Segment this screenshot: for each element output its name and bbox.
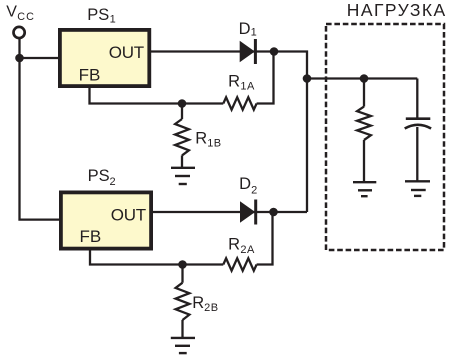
- ground (R2B): [171, 338, 195, 353]
- svg-text:PS: PS: [88, 167, 110, 185]
- Vcc label: [6, 3, 35, 23]
- Vcc terminal: [14, 27, 25, 38]
- ground (load capacitor): [405, 181, 430, 196]
- power supply PS2: [61, 192, 151, 248]
- wire PS2 OUT to D2: [153, 211, 274, 213]
- wire PS2 FB down and right: [90, 249, 223, 265]
- load capacitor: [405, 79, 431, 182]
- PS2 label: [88, 167, 116, 188]
- resistor R1B: [175, 104, 189, 168]
- load box dashed outline: [326, 24, 444, 250]
- node junction D2 cathode: [269, 208, 278, 217]
- svg-text:R: R: [192, 294, 204, 312]
- node junction D1 cathode: [270, 47, 279, 56]
- ground (load resistor): [353, 182, 376, 196]
- svg-text:1: 1: [251, 27, 257, 39]
- resistor R2B: [176, 265, 190, 338]
- svg-text:OUT: OUT: [109, 43, 144, 62]
- node junction load tap: [303, 74, 312, 83]
- PS1 label: [87, 6, 116, 25]
- wire load tap into load box: [307, 77, 417, 79]
- svg-text:CC: CC: [17, 11, 35, 23]
- wire PS1 OUT to D1: [151, 50, 274, 52]
- wire PS1 FB down and right: [90, 86, 224, 104]
- svg-text:2: 2: [110, 176, 116, 188]
- svg-text:1B: 1B: [207, 137, 221, 149]
- node junction FB1/R1B: [178, 99, 187, 108]
- svg-text:OUT: OUT: [111, 205, 146, 224]
- load resistor: [357, 79, 371, 183]
- svg-text:PS: PS: [87, 6, 109, 24]
- D2 label: [239, 175, 257, 196]
- svg-text:D: D: [239, 175, 251, 193]
- svg-text:R: R: [228, 72, 240, 90]
- svg-text:R: R: [195, 130, 207, 148]
- svg-text:FB: FB: [80, 227, 102, 246]
- node junction FB2/R2B: [178, 260, 187, 269]
- node junction Vcc/PS1: [15, 54, 24, 63]
- diode D1: [240, 39, 257, 64]
- svg-text:D: D: [239, 20, 251, 38]
- resistor R2A: [223, 258, 256, 270]
- R1B label: [195, 130, 221, 150]
- svg-text:FB: FB: [79, 65, 101, 84]
- R2A label: [228, 236, 255, 256]
- power supply PS1: [60, 30, 149, 86]
- wire Vcc vertical rail: [20, 39, 61, 220]
- svg-text:НАГРУЗКА: НАГРУЗКА: [347, 0, 447, 20]
- svg-text:R: R: [228, 236, 240, 254]
- node junction load resistor tap: [360, 74, 369, 83]
- wire D2 junction to main vertical: [274, 211, 308, 213]
- wire D1 junction to main vertical: [274, 52, 307, 213]
- wire R2A to D2 junction: [257, 212, 273, 265]
- svg-text:2: 2: [251, 184, 257, 196]
- wire R1A to D1 junction: [257, 52, 274, 104]
- ground (R1B): [171, 168, 195, 184]
- R2B label: [192, 294, 218, 314]
- svg-text:V: V: [6, 3, 17, 20]
- resistor R1A: [223, 97, 256, 109]
- svg-text:1: 1: [110, 13, 116, 25]
- wire Vcc to PS1 input: [20, 57, 60, 59]
- D1 label: [239, 20, 257, 39]
- R1A label: [228, 72, 255, 92]
- svg-text:2A: 2A: [240, 244, 255, 256]
- diode D2: [240, 200, 257, 225]
- svg-text:2B: 2B: [204, 302, 218, 314]
- svg-text:1A: 1A: [240, 80, 255, 92]
